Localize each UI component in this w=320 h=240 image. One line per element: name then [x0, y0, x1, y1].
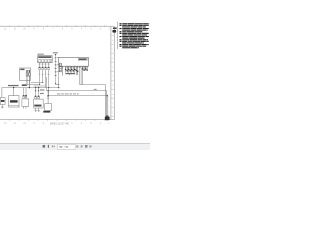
sensor inline splices	[47, 96, 49, 98]
C1 label above	[37, 54, 43, 55]
relay drop	[13, 88, 15, 96]
C1 pins below	[40, 63, 49, 67]
module M1 box	[22, 99, 29, 106]
switch drops to module M1	[24, 88, 26, 96]
M1 connector pins	[23, 95, 25, 98]
sensor drop junctions	[47, 90, 48, 91]
fuse element 2	[29, 71, 31, 88]
sensor drop center	[47, 91, 49, 104]
bottom zone ticks	[10, 119, 105, 121]
battery box G	[0, 98, 5, 105]
arrow labels	[40, 89, 44, 90]
M1 bottom pins	[23, 106, 25, 108]
C1 pin squares	[39, 60, 52, 63]
C1 wires through splices	[40, 70, 49, 77]
chain tail wire	[56, 83, 59, 85]
bottom zone numbers	[4, 122, 110, 125]
wire label under fuse box	[22, 84, 27, 86]
sensor box label	[43, 111, 50, 113]
page number box	[58, 145, 76, 150]
notes column left rule	[117, 22, 119, 49]
right wire verticals	[106, 85, 108, 117]
svg-text:8W80-21057-AB: 8W80-21057-AB	[50, 122, 69, 125]
revision stamp bar top-right of frame	[113, 27, 117, 29]
svg-text:J: J	[112, 103, 113, 105]
harness wire b3	[34, 85, 46, 87]
wire main horizontal	[2, 87, 59, 89]
wire3 end junction	[106, 95, 108, 97]
viewer toolbar	[0, 143, 150, 150]
fuse element 1	[26, 71, 28, 85]
relay box inner line	[9, 105, 19, 107]
bottom connector blob	[105, 116, 110, 120]
chain bottom junction	[55, 83, 56, 84]
long wire 1	[80, 84, 106, 86]
sheet frame right outer border	[113, 26, 115, 120]
C1 pin labels	[39, 64, 41, 65]
revision stamp blob	[113, 30, 117, 33]
U1 pin comb	[63, 66, 87, 75]
sheet frame bottom border	[0, 119, 114, 121]
toolbar icon chevrons	[52, 145, 53, 147]
long wire label	[57, 93, 79, 94]
right zone letters	[112, 30, 114, 114]
harness wire b2	[31, 81, 43, 83]
C1 label strip	[38, 56, 51, 58]
module M2 box	[34, 99, 44, 108]
notes text block	[120, 23, 150, 48]
top zone numbers	[4, 28, 110, 31]
U1 internal element	[59, 63, 61, 72]
U1 pin numbers row	[62, 67, 87, 68]
toolbar icons right	[76, 145, 78, 147]
long wire 2	[47, 90, 107, 92]
fuse box label	[20, 69, 24, 70]
U1 left pin drop	[58, 66, 60, 87]
M2 connector pins	[35, 96, 37, 99]
connector block C1	[38, 56, 53, 63]
wire label left	[8, 85, 19, 86]
ECU box U1	[59, 58, 89, 67]
U1 pin symbols	[65, 68, 88, 71]
M2 grounds	[34, 108, 39, 111]
sheet frame right inner border	[110, 26, 112, 120]
wire2 tag	[94, 89, 97, 90]
U1 drop junction dots	[58, 87, 59, 88]
arrow taps M2	[36, 88, 39, 96]
harness junction dots	[39, 84, 40, 85]
right zone ticks	[111, 35, 114, 116]
shield chain	[55, 54, 57, 84]
sheet frame top border	[0, 25, 114, 27]
harness wire b1	[27, 83, 40, 85]
fuse box F	[20, 68, 31, 80]
top zone ticks	[10, 25, 105, 27]
battery ground	[1, 105, 3, 108]
C1 inline connectors	[39, 67, 50, 70]
long wire 3	[49, 95, 108, 97]
U1 right drops	[80, 66, 83, 84]
U1 tie bar	[65, 73, 75, 74]
junction dots on main wire	[13, 87, 14, 88]
battery drop left	[1, 88, 3, 98]
relay box K	[9, 96, 19, 107]
harness verticals from connector pins	[40, 77, 49, 96]
toolbar icon divider	[48, 145, 49, 148]
U1 part label	[78, 58, 87, 60]
toolbar icon thumbs	[43, 145, 46, 148]
sensor box S	[45, 104, 52, 111]
